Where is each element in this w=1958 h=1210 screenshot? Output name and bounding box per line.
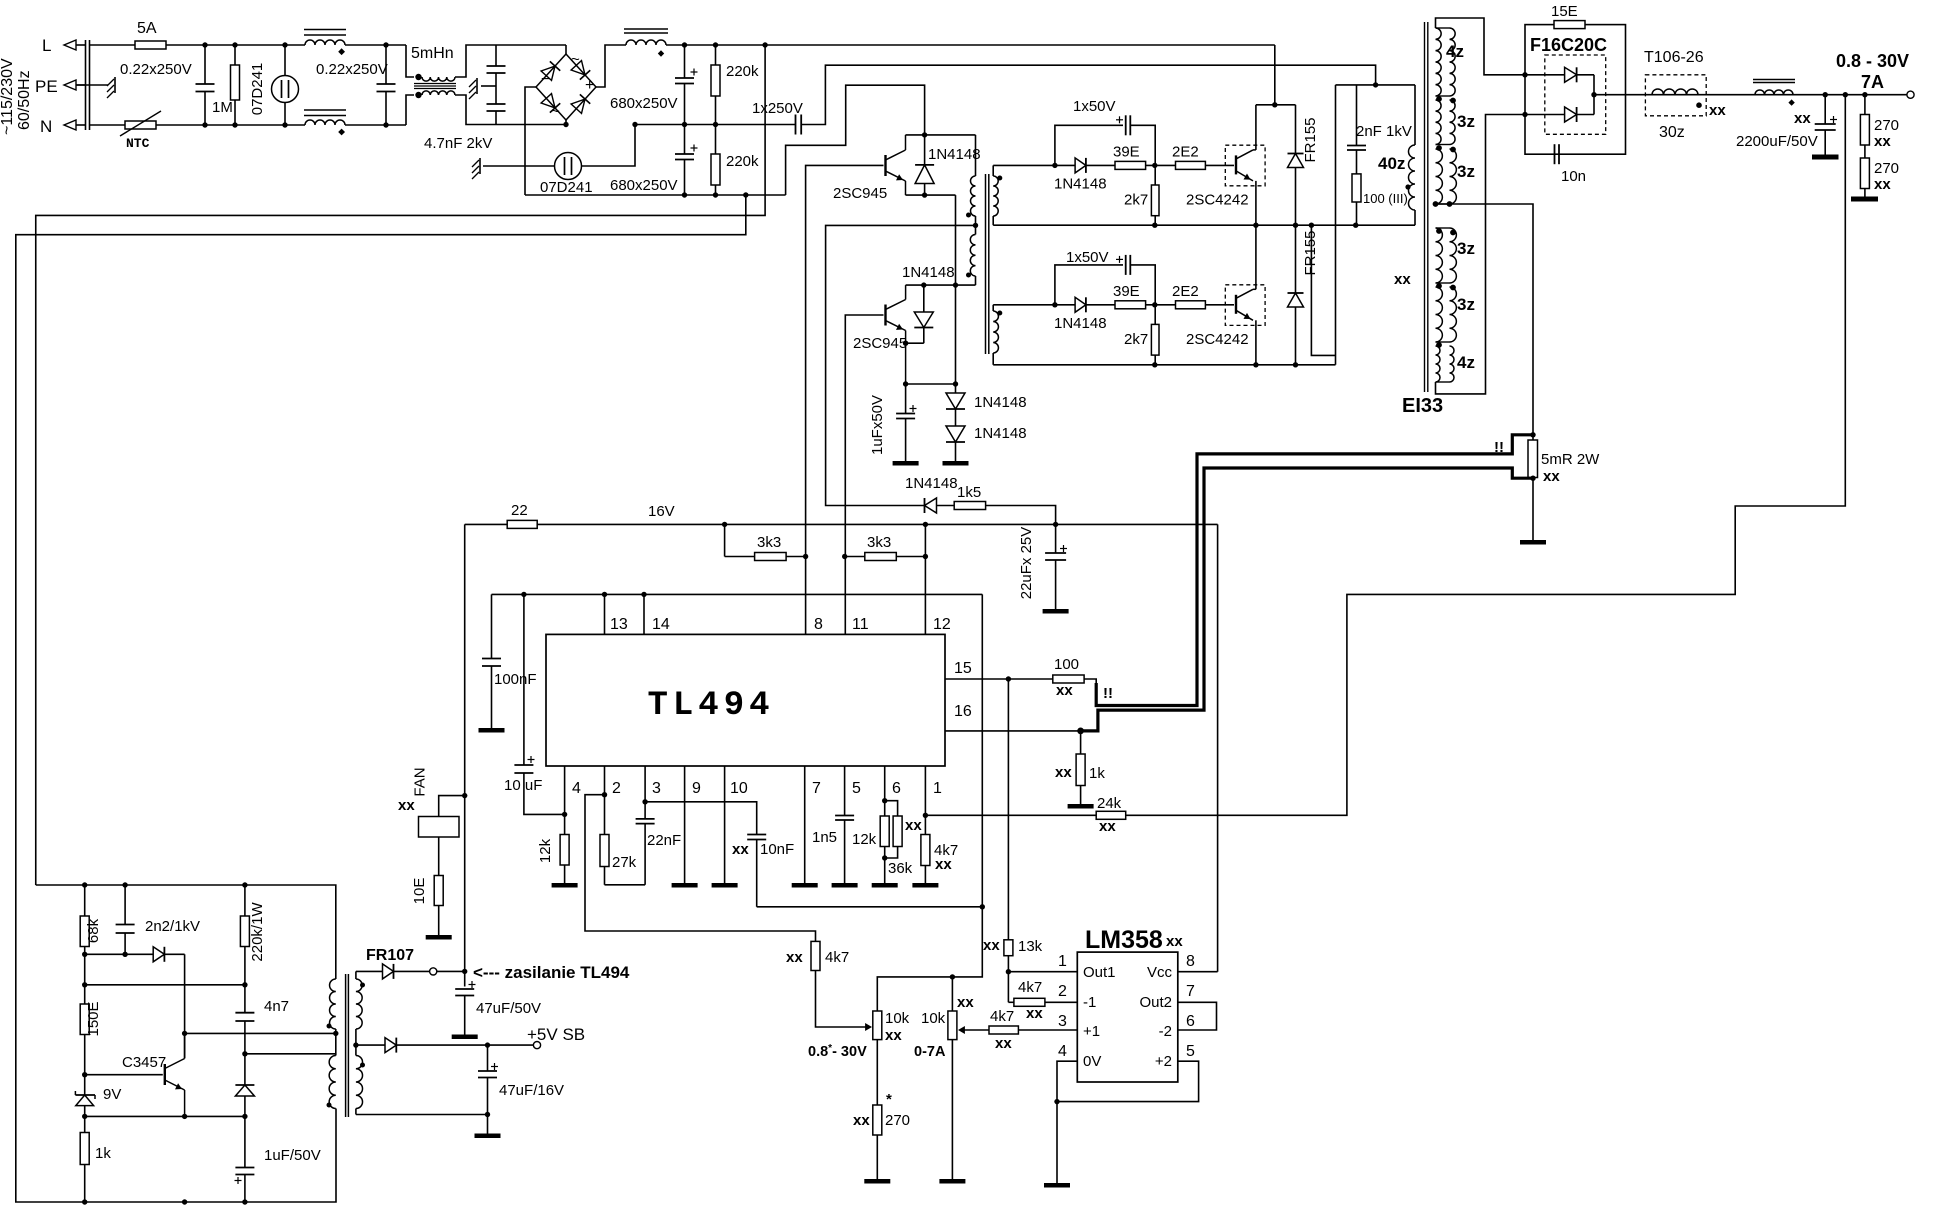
EI33 secondary winding seg6 [1436,346,1455,382]
choke DC winding [626,40,666,45]
ground pin5 [832,883,858,888]
svg-text:4.7nF 2kV: 4.7nF 2kV [424,135,492,152]
junction emitter row [82,1114,248,1119]
choke CM1 core top [304,30,346,36]
chassis ground varistor2 [472,158,480,179]
wire 1k5 to 16V rail [986,506,1056,525]
svg-text:xx: xx [905,817,922,834]
driver transformer center tap dot [973,223,978,228]
wire VREF drop to pots [877,594,982,1011]
ground 10k current [939,1179,965,1184]
svg-text:3: 3 [652,780,661,797]
capacitor 47uF/16V [478,1045,498,1114]
svg-text:2n2/1kV: 2n2/1kV [145,918,200,935]
label xx 270 set [853,1112,870,1129]
wire standby +310 rail [36,885,336,979]
kelvin trace pin16 [1081,468,1533,731]
svg-text:+: + [585,77,594,94]
svg-text:2SC4242: 2SC4242 [1186,331,1249,348]
driver transformer secondary1 winding [993,165,998,225]
label 4z bottom [1457,353,1475,372]
capacitor 47uF/50V [455,981,475,1035]
label 4n7 [264,998,289,1015]
wire bridge plus [596,45,626,87]
label pin5 [852,780,861,797]
transistor Q 2SC4242 upper [1225,145,1265,186]
label 40z [1378,154,1405,173]
ground 270 set [864,1179,890,1184]
junction 16V rail [722,522,1058,527]
svg-text:FAN: FAN [412,767,429,796]
svg-text:!!: !! [1103,685,1113,702]
wire 4k7 to +1 [1018,1029,1077,1031]
wire 100 to kelvin [1084,679,1096,683]
svg-text:Vcc: Vcc [1147,964,1173,981]
svg-text:12: 12 [933,616,951,633]
wire lower 2SC4242 emitter [1255,320,1257,365]
svg-text:0.22x250V: 0.22x250V [120,61,192,78]
wire 39E-2E2 lower [1146,304,1176,306]
svg-text:4z: 4z [1446,42,1464,61]
svg-text:15E: 15E [1551,3,1578,20]
wire collector join [184,1033,186,1058]
label xx 4k7 voltage [786,949,803,966]
resistor 270 set [873,1105,882,1179]
driver transformer primary bottom lead [975,276,977,285]
label 3k3 first [757,534,781,551]
wire diode to 1k5 [937,505,955,507]
svg-text:xx: xx [1874,133,1891,150]
terminal zasilanie [430,968,437,975]
label 2E2 lower [1172,283,1199,300]
label 10nF [760,841,794,858]
wire pin15 stub [945,678,1053,680]
wire shunt to ground [1532,478,1534,541]
rectifier F16C20C outer box [1525,25,1626,155]
label Vcc inside [1147,964,1173,981]
svg-text:15: 15 [954,660,972,677]
svg-text:27k: 27k [612,854,637,871]
svg-text:12k: 12k [852,831,877,848]
svg-text:Out2: Out2 [1139,994,1172,1011]
svg-text:11: 11 [852,616,869,633]
label xx 10k voltage [885,1027,902,1044]
wire +310 drop to collector rail [1274,45,1276,105]
junction lower emitter bus [1152,362,1298,367]
wire 16V rail [465,523,508,525]
label 1N4148 lower [902,264,955,281]
svg-text:xx: xx [732,841,749,858]
diode F16C20C D2 [1525,107,1594,122]
wire bridge bottom stub [565,120,567,125]
svg-text:3z: 3z [1457,112,1475,131]
label 0.8-30V [808,1043,867,1060]
svg-text:270: 270 [1874,160,1899,177]
wire step down L [406,45,414,77]
resistor 4k7 pin3 LM358 [989,1026,1018,1034]
label 4k7 LM3 [990,1008,1014,1025]
svg-text:xx: xx [983,937,1000,954]
wire B minus loop to standby [16,195,746,1202]
EI33 winding connector 1 [1436,27,1450,29]
svg-text:16: 16 [954,703,972,720]
svg-text:0.8*- 30V: 0.8*- 30V [808,1043,867,1060]
transistor Q 2SC945 upper [886,135,906,195]
wire 2E2 to base lower [1205,304,1234,306]
label 1k pin16 [1089,765,1105,782]
svg-text:10nF: 10nF [760,841,794,858]
svg-text:T106-26: T106-26 [1644,49,1704,66]
wire pin10 [724,766,726,883]
junction bias row [903,381,958,386]
wire 27k to pin3 [605,884,646,886]
label 100nF [494,671,537,688]
label 47uF/16V [499,1082,564,1099]
svg-text:1M: 1M [212,99,233,116]
label 7A [1861,72,1884,92]
label 2SC945 upper [833,185,887,202]
resistor 270 upper [1860,95,1869,145]
diode FR155 lower [1288,225,1304,365]
wire lower emitter bus [993,364,1335,366]
svg-text:2SC4242: 2SC4242 [1186,191,1249,208]
svg-text:xx: xx [995,1035,1012,1052]
wire 40z top node [1336,84,1416,86]
driver transformer secondary2 winding [993,305,998,365]
label L [42,36,51,55]
wire shunt top stub [1532,435,1534,440]
svg-text:47uF/50V: 47uF/50V [476,1000,541,1017]
ground 1uF [893,461,919,466]
standby transformer feedback winding [329,1056,336,1109]
resistor 10E [434,837,443,935]
label pin8 [814,616,823,633]
label 3k3 second [867,534,891,551]
wire NTC to choke [156,124,305,126]
label pin9 [692,780,701,797]
diode 1N4148 bias1 [946,393,965,409]
label 10uF [504,777,542,794]
label -1 inside [1083,994,1096,1011]
svg-text:36k: 36k [888,860,913,877]
svg-text:5mHn: 5mHn [411,45,454,62]
svg-text:F16C20C: F16C20C [1530,35,1607,55]
junction midpoint bus [1152,223,1358,228]
resistor 15E [1554,21,1585,29]
diode standby feedback [235,1054,254,1117]
wire N to NTC [90,124,126,126]
wire varistor2 to mid rail [582,125,636,167]
svg-text:9: 9 [692,780,701,797]
label 3z 1 [1457,112,1475,131]
wire 150E branch [85,984,245,986]
svg-text:2E2: 2E2 [1172,283,1199,300]
svg-text:68k: 68k [85,918,102,943]
svg-text:47uF/16V: 47uF/16V [499,1082,564,1099]
svg-text:FR107: FR107 [366,947,414,964]
svg-text:4: 4 [1058,1043,1067,1060]
junction dots X2 [383,42,388,127]
svg-text:2: 2 [612,780,621,797]
label 1x250V [752,100,803,117]
wire upper 2SC4242 emitter [1255,181,1257,225]
junction 4n7 bottom [242,1051,247,1056]
wire lower collector rail [906,284,976,286]
wire EI33 bottom lead to anode2 [1436,115,1524,394]
label 3z 2 [1457,162,1475,181]
label 270 set [885,1112,910,1129]
wire pin13 [604,594,606,634]
wire pin11 to base [845,315,883,634]
output terminal [1907,91,1914,98]
wire choke1 to X2 bottom [345,124,406,126]
wire pin9 [684,766,686,883]
label 2k7 upper [1124,191,1148,208]
svg-text:LM358: LM358 [1085,926,1163,954]
wire 16V rail right [537,523,1217,525]
label 10n [1561,168,1586,185]
choke DC core [624,29,668,33]
junction 3k3 first [803,554,808,559]
svg-text:TL494: TL494 [647,687,774,725]
label EI33 [1402,395,1443,417]
label pin1 [933,780,942,797]
label 2nF 1kV [1356,123,1412,140]
junction cell upper mid [1152,163,1157,168]
junction sec bottom [485,1112,490,1117]
svg-text:10E: 10E [411,878,428,905]
wire return box [1311,225,1335,355]
driver transformer primary top lead [975,135,977,176]
wire F16C20C cathodes [1593,75,1595,115]
svg-text:8: 8 [814,616,823,633]
svg-text:xx: xx [1026,1005,1043,1022]
svg-text:100 (III): 100 (III) [1363,191,1408,206]
diode 1N4148 bias2 [946,409,965,461]
driver transformer primary winding lower [970,235,975,277]
svg-text:1: 1 [1058,953,1067,970]
capacitor 4.7nF lower [487,73,506,125]
transformer EI33 primary 40z [1409,85,1415,225]
svg-text:40z: 40z [1378,154,1405,173]
junction output node [1823,92,1868,97]
EI33 secondary winding seg4 [1436,228,1457,283]
label 10E [411,878,428,905]
label xx 24k [1099,818,1116,835]
standby transformer primary winding [330,979,336,1029]
svg-text:1x250V: 1x250V [752,100,803,117]
wire output feedback [1126,95,1846,816]
junction pin6 bottom [882,855,887,860]
standby tr sec2 dot [360,1063,365,1068]
svg-text:FR155: FR155 [1302,230,1319,275]
junction standby sec mid [353,1042,358,1047]
ground pin4 [552,883,578,888]
wire fan stub [439,796,465,817]
svg-text:xx: xx [786,949,803,966]
svg-text:7: 7 [1186,983,1195,1000]
resistor 1k5 [954,502,985,510]
label xx 10k current [957,994,974,1011]
svg-text:0.8 - 30V: 0.8 - 30V [1836,51,1909,71]
capacitor 4.7nF upper [487,45,506,73]
wire pin2 to 4k7 pot [585,795,816,942]
pot wiper arrow current [958,1026,989,1034]
svg-text:xx: xx [1794,110,1811,127]
diode 1N4148 cell lower [1055,297,1115,312]
svg-text:+5V SB: +5V SB [527,1025,585,1044]
diode 1N4148 lower antiparallel [906,285,934,343]
svg-text:3z: 3z [1457,162,1475,181]
label 9V [103,1086,121,1103]
label C3457 [122,1054,166,1071]
junction VREF rail [521,592,647,597]
svg-text:10: 10 [730,780,748,797]
diode FR107 [356,964,430,979]
wire 0V to ground [1056,1102,1058,1183]
svg-text:220k/1W: 220k/1W [249,902,266,962]
svg-text:14: 14 [652,616,670,633]
svg-text:1x50V: 1x50V [1066,249,1109,266]
label 1n5 [812,829,837,846]
wire PE to ground [76,84,108,86]
label 0V inside [1083,1053,1101,1070]
wire Vcc pin8 [1178,971,1218,973]
svg-text:~: ~ [571,51,580,68]
wire pin7 [804,766,806,883]
label 1N4148 feed [905,475,958,492]
wire base C3457 [85,1074,163,1076]
label 13k [1018,938,1043,955]
junction 40z top node [1373,82,1378,87]
wire +310 rail [666,44,1275,46]
svg-text:6: 6 [892,780,901,797]
label xx 270 lower [1874,176,1891,193]
wire secondary to cell lower [993,304,1055,306]
capacitor 1uF/50V [235,1116,255,1202]
wire 5mHn out bottom [455,95,566,125]
wire secondary to cell upper [993,164,1055,166]
label FR107 [366,947,414,964]
label 4.7nF 2kV [424,135,492,152]
wire choke1 to X2 top [345,44,406,46]
label pin16 [954,703,972,720]
svg-text:3k3: 3k3 [867,534,891,551]
label xx 13k [983,937,1000,954]
driver transformer primary dot lower [966,273,971,278]
potentiometer 10k voltage [873,1011,882,1105]
wire midpoint bus [993,224,1415,226]
svg-text:100: 100 [1054,656,1079,673]
label 2k7 lower [1124,331,1148,348]
label 27k [612,854,637,871]
wire pin14 [643,594,645,634]
label LM358 pin5 [1186,1043,1195,1060]
ground 2200uF [1812,155,1839,160]
svg-text:8: 8 [1186,953,1195,970]
standby transformer secondary2 [356,1056,363,1115]
label xx shunt [1543,468,1560,485]
label PE [35,77,58,96]
label 3z 4 [1457,295,1475,314]
ground 270 divider [1851,197,1878,202]
label FR155 lower [1302,230,1319,275]
capacitor 10uF [514,594,562,814]
label pin4 [572,780,581,797]
wire step up N [406,95,414,125]
label 1M [212,99,233,116]
label pin3 [652,780,661,797]
wire 10nF to VREF drop [757,906,983,908]
svg-text:1x50V: 1x50V [1073,98,1116,115]
label bridge ~ top [571,51,580,68]
capacitor 1n5 [835,816,854,884]
svg-text:10k: 10k [885,1010,910,1027]
svg-text:12k: 12k [537,838,554,863]
label +2 inside [1155,1053,1172,1070]
EI33 secondary winding seg3 [1436,149,1457,204]
label 5A [137,20,157,37]
resistor 270 lower [1860,145,1869,197]
svg-text:4k7: 4k7 [1018,979,1042,996]
wire feedback winding top [245,1053,336,1055]
thermistor NTC [120,111,161,136]
wire pin8 to base [806,165,884,634]
svg-text:07D241: 07D241 [540,179,593,196]
svg-text:9V: 9V [103,1086,121,1103]
capacitor 2nF 1kV [1347,85,1366,150]
svg-text:22uFx 25V: 22uFx 25V [1018,527,1035,600]
label TL494 [647,687,774,725]
label FR155 upper [1302,117,1319,162]
diode snubber standby [153,947,184,962]
wire primary mid to collector [185,1032,336,1034]
choke CM1 top winding [305,40,345,45]
transistor Q C3457 [165,1059,185,1117]
wire zasilanie [437,970,465,972]
connector double bar [86,40,90,130]
svg-text:N: N [40,117,52,136]
label xx T106 [1709,102,1726,119]
svg-text:xx: xx [1543,468,1560,485]
ground pin7 [792,883,818,888]
label 680x250V lower [610,177,678,194]
resistor 24k [1096,811,1126,819]
label pin2 [612,780,621,797]
resistor shunt 5mR 2W [1528,440,1538,478]
capacitor 10nF [747,835,766,907]
capacitor X1 0.22x250V [196,45,215,125]
diode 1N4148 cell upper [1055,158,1115,173]
junction pin16 [1077,728,1084,735]
choke DC phase diamond [658,50,664,56]
junction pin15 [1006,676,1011,681]
label F16C20C [1530,35,1607,55]
wire mid rail [635,124,795,126]
svg-text:EI33: EI33 [1402,395,1443,417]
label 22uFx 25V [1018,527,1035,600]
EI33 center tap dots [1433,201,1453,207]
label xx FAN [398,797,415,814]
resistor 27k [600,835,609,885]
label 1N4148 bias2 [974,425,1027,442]
label xx EI33 primary [1394,271,1411,288]
svg-text:39E: 39E [1113,143,1140,160]
svg-text:10k: 10k [921,1010,946,1027]
wire snubber row [85,953,154,955]
junction bottom rail [82,1199,248,1204]
svg-text:4k7: 4k7 [990,1008,1014,1025]
